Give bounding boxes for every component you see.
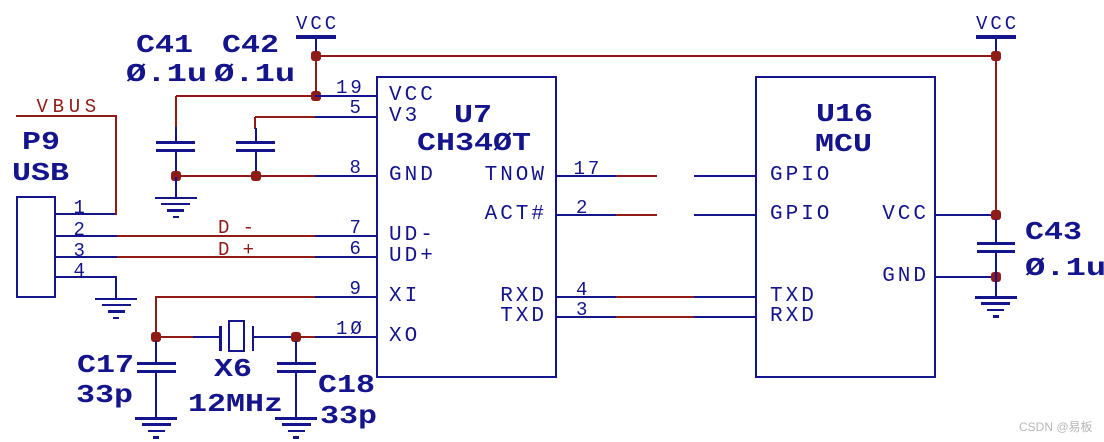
pin 5 stub of U7	[315, 116, 377, 118]
pin number 3	[576, 301, 590, 320]
junction at C42 bottom	[251, 171, 261, 181]
pin name GPIO 1 of U16	[770, 165, 832, 186]
label USB	[12, 160, 69, 186]
label C41	[136, 32, 193, 58]
junction at pin 19 node	[311, 91, 321, 101]
lead C18 top	[295, 341, 297, 363]
ground below C43	[975, 296, 1017, 318]
lead C41 top	[175, 127, 177, 142]
pin name UD+ of U7	[389, 246, 436, 267]
pin 3 stub of U7	[555, 316, 617, 318]
pin number 5	[350, 99, 364, 118]
pin number 9	[350, 280, 364, 299]
junction below right VCC	[991, 51, 1001, 61]
wire C42 top vertical	[254, 117, 256, 129]
ground below C41	[155, 197, 197, 219]
pin name TNOW of U7	[485, 165, 547, 186]
label C42	[222, 32, 279, 58]
pin name V3 of U7	[389, 106, 420, 127]
pin number 19	[336, 79, 365, 98]
wire X6 left red segment	[156, 336, 194, 338]
wire XO junction to pin 10	[296, 336, 316, 338]
pin 7 stub of U7	[315, 235, 377, 237]
wire TXD net	[616, 316, 695, 318]
value 12MHz	[188, 391, 283, 417]
pin number 4 of P9	[74, 262, 88, 281]
pin name VCC of U16	[882, 204, 929, 225]
value 0.1u of C41	[126, 61, 207, 87]
label C18	[318, 372, 375, 398]
junction VCC of U16 / C43 top	[991, 210, 1001, 220]
watermark	[1019, 418, 1093, 435]
op-amp U7 body (IC CH340T)	[376, 76, 557, 378]
crystal X6	[228, 320, 246, 352]
wire XI net vertical	[155, 297, 157, 338]
capacitor C18	[277, 362, 316, 373]
pin number 6	[350, 240, 364, 259]
wire U16 GND to C43	[935, 276, 996, 278]
pin number 2 of P9	[74, 221, 88, 240]
label VCC left	[296, 15, 339, 34]
wire right VCC rail down	[995, 56, 997, 216]
wire VBUS horizontal	[16, 115, 117, 117]
junction X6 left / C17	[151, 332, 161, 342]
net label D-	[218, 219, 259, 238]
label VCC right	[976, 15, 1019, 34]
capacitor C17	[137, 362, 176, 373]
lead C43 bottom	[995, 253, 997, 278]
pin number 1 of P9	[74, 199, 88, 218]
pin name GPIO 2 of U16	[770, 204, 832, 225]
lead C17 bottom	[155, 373, 157, 418]
wire RXD net	[616, 296, 695, 298]
pin number 17	[574, 160, 603, 179]
wire VBUS vertical to pin 1	[115, 115, 117, 216]
pin 10 stub of U7	[315, 336, 377, 338]
wire junction to crystal left	[193, 336, 220, 338]
pin 4 stub of U7	[555, 296, 617, 298]
wire C43 bottom to ground	[995, 277, 997, 296]
junction below left VCC	[311, 51, 321, 61]
pin name RXD of U16	[770, 306, 817, 327]
wire left VCC down to pin 19 node	[315, 56, 317, 97]
value 33p of C17	[76, 382, 133, 408]
pin name GND of U16	[882, 266, 929, 287]
wire P9 pin 4 to ground	[115, 277, 117, 298]
junction X6 right / C18	[291, 332, 301, 342]
lead C43 top	[995, 219, 997, 243]
pin name TXD of U16	[770, 286, 817, 307]
label X6	[214, 356, 252, 382]
wire ACT# net	[616, 214, 657, 216]
ground below C18	[275, 417, 317, 439]
pin name RXD of U7	[500, 286, 547, 307]
lead C42 top	[255, 128, 257, 142]
label C43	[1025, 219, 1082, 245]
capacitor C41	[156, 141, 195, 152]
wire pin19 net horizontal	[176, 95, 317, 97]
pin name UD- of U7	[389, 225, 436, 246]
label CH340T	[417, 130, 531, 156]
wire P9 pin 2 stub	[56, 235, 117, 237]
pin 19 stub of U7	[315, 95, 377, 97]
TXD stub of U16	[694, 296, 756, 298]
value 0.1u of C43	[1025, 255, 1104, 281]
wire crystal right to junction	[254, 336, 295, 338]
pin number 8	[350, 159, 364, 178]
pin name XI of U7	[389, 286, 420, 307]
value 0.1u of C42	[214, 61, 295, 87]
wire TNOW net	[616, 175, 657, 177]
pin number 10	[336, 320, 365, 339]
wire U16 VCC to rail	[935, 214, 996, 216]
GPIO1 stub of U16	[694, 175, 756, 177]
wire C41 junction to ground	[175, 177, 177, 197]
pin number 2	[576, 199, 590, 218]
wire VCC top rail	[316, 55, 996, 57]
net label VBUS	[37, 98, 101, 117]
wire pin 5 net horizontal	[255, 116, 317, 118]
lead C42 bottom	[255, 152, 257, 177]
ground below P9 pin 4	[95, 298, 137, 320]
wire D+ net	[117, 256, 315, 258]
pin name ACT# of U7	[485, 204, 547, 225]
wire D- net	[117, 235, 315, 237]
label C17	[77, 352, 134, 378]
GPIO2 stub of U16	[694, 214, 756, 216]
label U16 designator	[816, 101, 873, 127]
label MCU	[815, 131, 872, 157]
pin name GND of U7	[389, 165, 436, 186]
net label D+	[218, 241, 259, 260]
ground below C17	[135, 417, 177, 439]
pin 8 stub of U7	[315, 175, 377, 177]
lead C17 top	[155, 341, 157, 363]
pin 17 stub of U7	[555, 175, 617, 177]
label U7 designator	[454, 102, 492, 128]
wire GND net C41 to pin 8	[176, 175, 316, 177]
op-amp U16 body (IC MCU)	[755, 76, 936, 378]
junction GND of U16 / C43 bottom	[991, 272, 1001, 282]
label P9 designator	[22, 129, 60, 155]
wire P9 pin 3 stub	[56, 256, 117, 258]
vcc bar left	[296, 35, 336, 39]
vcc bar right	[976, 35, 1016, 39]
pin number 4	[576, 281, 590, 300]
lead C18 bottom	[295, 373, 297, 418]
wire P9 pin 1 stub	[56, 213, 116, 215]
wire XI net horizontal	[155, 296, 316, 298]
wire C41 top vertical	[175, 96, 177, 129]
pin number 3 of P9	[74, 242, 88, 261]
capacitor C43	[977, 242, 1015, 253]
connector P9 USB body	[16, 196, 56, 298]
pin 2 stub of U7	[555, 214, 617, 216]
pin number 7	[350, 219, 364, 238]
RXD stub of U16	[694, 316, 756, 318]
pin 6 stub of U7	[315, 256, 377, 258]
lead C41 bottom	[175, 152, 177, 177]
value 33p of C18	[320, 403, 377, 429]
pin name TXD of U7	[500, 306, 547, 327]
wire P9 pin 4 stub	[56, 276, 117, 278]
pin name XO of U7	[389, 326, 420, 347]
capacitor C42	[236, 141, 275, 152]
pin 9 stub of U7	[315, 296, 377, 298]
junction at C41 bottom	[171, 171, 181, 181]
pin name VCC of U7	[389, 85, 436, 106]
